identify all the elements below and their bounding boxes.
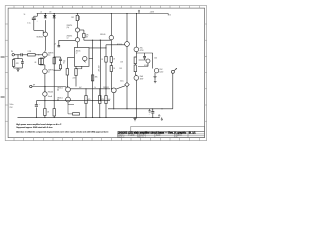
svg-text:BD140: BD140 <box>100 34 105 36</box>
svg-text:2N3055 (25) elab amplifier cir: 2N3055 (25) elab amplifier circuit base … <box>118 131 187 135</box>
label Q9 <box>103 87 109 89</box>
wire VR1 to Q9 <box>116 86 125 89</box>
label D1 above <box>40 11 42 13</box>
wire box bottom <box>76 66 82 69</box>
capacitor C2 <box>32 18 38 22</box>
transistor Q4 <box>75 28 79 32</box>
diode D1 <box>44 15 47 18</box>
node +V rail arrow <box>138 10 140 14</box>
junction dots output rail <box>113 108 162 109</box>
label net b <box>94 87 96 89</box>
label Q5 <box>67 35 73 39</box>
wire V127 down <box>126 46 128 82</box>
svg-text:Attention: in 2004 the compone: Attention: in 2004 the components improv… <box>16 130 109 133</box>
wire R9-Q7 link <box>84 40 111 41</box>
resistor R15 <box>110 57 112 72</box>
terminal input IN <box>12 54 14 56</box>
title block table <box>118 132 205 138</box>
wire input shunt drop <box>17 54 18 58</box>
capacitor C8 <box>149 109 155 118</box>
svg-text:22p: 22p <box>63 60 66 62</box>
ground rail stub <box>134 117 136 118</box>
wire Q10 emitter <box>135 52 137 57</box>
wire V136 <box>136 14 138 48</box>
label Q14 <box>48 91 54 97</box>
wire C6 <box>144 53 146 60</box>
transistor Q8 <box>125 42 130 47</box>
wire box to V92 <box>89 58 93 60</box>
transistor Q9 <box>111 88 116 93</box>
terminal NFB <box>30 85 32 87</box>
svg-text:Bl. 1/1: Bl. 1/1 <box>189 132 196 135</box>
label +V rail <box>150 12 155 14</box>
wire output horizontal <box>108 108 173 110</box>
wire D1 stub <box>44 14 46 16</box>
svg-text:1837: 1837 <box>140 78 144 80</box>
ground under rail <box>148 109 151 112</box>
label Q4 <box>67 25 73 29</box>
label R8 <box>71 17 74 19</box>
svg-text:+56V: +56V <box>150 12 155 14</box>
svg-text:Bearb. b: Bearb. b <box>118 136 124 138</box>
svg-text:+: + <box>149 114 150 116</box>
wire V98 <box>100 40 101 101</box>
label R11 <box>73 78 76 80</box>
resistor R13 on V92 <box>91 75 93 81</box>
wire V92 long <box>92 40 93 118</box>
ground symbol bottom <box>133 119 136 121</box>
ground Q13 second <box>154 79 157 83</box>
svg-text:MJE350: MJE350 <box>37 37 43 39</box>
title block row3 <box>118 135 178 138</box>
svg-text:Supposed approx. 80W rated wit: Supposed approx. 80W rated with 8 ohm <box>16 126 53 129</box>
wire column B <box>111 40 112 90</box>
label U1 line1 <box>76 49 81 52</box>
wire Q9 down <box>113 93 115 109</box>
wire Q11 down <box>136 80 137 118</box>
svg-text:100: 100 <box>154 57 157 59</box>
wire D2 stub <box>53 14 55 16</box>
wire shunt gnd join <box>14 67 23 69</box>
svg-text:2N5401: 2N5401 <box>48 91 54 93</box>
wire Q13 emitter <box>154 73 156 76</box>
transistor Q14 <box>43 86 47 101</box>
svg-text:5200: 5200 <box>159 71 163 73</box>
wire Q12 bottom link <box>138 63 148 66</box>
wire Q5 down <box>77 42 79 48</box>
border frame outer <box>5 6 206 141</box>
resistor R9 <box>83 33 85 40</box>
label IN <box>11 51 14 53</box>
wire output vertical <box>172 73 174 109</box>
label R19 <box>47 112 50 114</box>
label R1 value <box>16 63 20 65</box>
title block row1 right <box>189 132 196 135</box>
svg-text:56: 56 <box>24 14 26 16</box>
svg-text:1N: 1N <box>49 11 51 13</box>
wire NFB <box>32 87 66 88</box>
label R2 <box>28 51 32 53</box>
wire C2 feed <box>34 13 38 18</box>
resistor R22 <box>99 89 101 118</box>
wire box top link <box>89 47 106 49</box>
resistor R23 <box>105 89 107 118</box>
wire V54 upper <box>53 25 55 87</box>
fold mark left lower <box>1 96 5 98</box>
label U1 line2 <box>76 53 78 55</box>
label Q7 <box>100 34 105 36</box>
resistor R11 <box>75 66 77 86</box>
transistor Q16 <box>66 92 71 105</box>
svg-text:1. Cande: 1. Cande <box>128 135 135 137</box>
svg-text:2K2: 2K2 <box>71 17 74 19</box>
label R15 <box>113 58 115 70</box>
transistor Q15 <box>66 87 71 92</box>
label VAS2 <box>119 68 122 70</box>
wire +V top rail <box>38 13 168 15</box>
svg-text:1K: 1K <box>113 58 115 60</box>
fold mark left upper <box>1 56 5 58</box>
wire mid horizontal <box>36 100 110 101</box>
svg-text:220: 220 <box>73 78 76 80</box>
title block row1 text <box>118 131 187 135</box>
transistor Q3 <box>43 69 48 92</box>
title block top cell <box>131 126 205 131</box>
label Q3 <box>48 69 54 74</box>
wire VR1 down <box>126 87 128 109</box>
capacitor C7 electrolytic <box>35 101 40 118</box>
resistor R16 <box>134 57 136 64</box>
terminal OUT <box>171 70 174 73</box>
svg-text:1K: 1K <box>113 68 115 70</box>
resistor R12 on V54 <box>53 109 55 118</box>
label C7b <box>10 107 14 109</box>
wire V54 lower <box>53 87 55 109</box>
label C2 value <box>27 23 30 25</box>
label Q8 <box>117 44 122 46</box>
border frame inner <box>8 8 205 138</box>
wire V127 <box>126 14 128 42</box>
resistor R19 <box>44 101 46 118</box>
svg-text:1K5: 1K5 <box>119 68 122 70</box>
label Q1 <box>37 37 43 39</box>
transistor Q2 <box>43 51 48 58</box>
wire column A <box>105 45 106 90</box>
transistor Q6 in box <box>83 56 87 62</box>
wire shunt split <box>14 58 23 60</box>
wire D2 down <box>45 13 55 25</box>
svg-text:2N5551: 2N5551 <box>57 88 63 90</box>
label Q15 <box>57 88 63 92</box>
svg-text:+: + <box>37 20 38 22</box>
ground Q13 <box>153 77 156 79</box>
wire Q4 collector right <box>80 30 84 33</box>
wire comp top <box>54 56 61 58</box>
label R5R6 <box>35 62 37 64</box>
label R13 <box>95 77 99 79</box>
emitter resistors R5 R6 <box>39 58 45 69</box>
resistor R14 <box>105 56 107 62</box>
wire input <box>14 54 20 56</box>
transistor Q5 <box>75 32 79 42</box>
svg-text:1K: 1K <box>101 59 103 61</box>
svg-text:C9: C9 <box>54 44 56 46</box>
label C7 <box>10 104 14 106</box>
label R9 <box>86 34 90 38</box>
label R23 <box>108 99 111 101</box>
resistor R21 <box>85 89 87 118</box>
wire R2-Q2 base <box>35 54 42 55</box>
note line 1 <box>16 123 62 126</box>
transistor Q7 <box>109 35 113 39</box>
svg-text:470: 470 <box>101 99 104 101</box>
svg-text:1.5u: 1.5u <box>27 23 30 25</box>
label R22 <box>101 99 104 101</box>
junction dots on +V rail <box>45 13 137 14</box>
transistor Q13 <box>154 69 158 73</box>
wire V152 <box>152 53 154 69</box>
svg-text:100: 100 <box>108 99 111 101</box>
label Q10 <box>140 48 144 52</box>
wire Q16 emitter h <box>68 104 74 106</box>
wire ground rail <box>18 116 160 118</box>
note line 2 <box>16 126 53 129</box>
transistor Q11 <box>134 76 139 81</box>
component box U1 <box>74 48 89 67</box>
transistor Q10 <box>134 47 139 52</box>
label +V right <box>169 14 172 16</box>
wire Q8 base left <box>106 44 125 46</box>
trimmer diamond VR1 <box>125 82 129 86</box>
note line 3 <box>16 130 109 133</box>
capacitor C6 bias <box>143 56 146 57</box>
label Q13 <box>159 69 163 73</box>
svg-text:2SB716: 2SB716 <box>67 25 73 27</box>
resistor R8 <box>76 15 80 20</box>
wire Q1 base <box>34 20 43 34</box>
wire V113 top <box>110 14 112 36</box>
label Q2 <box>48 51 54 56</box>
label Q16 <box>57 98 63 102</box>
svg-text:High power mono amplifier boar: High power mono amplifier board design r… <box>16 123 62 126</box>
svg-text:4793: 4793 <box>140 50 144 52</box>
wire box left stub <box>67 57 74 59</box>
ground rail end mark <box>158 115 160 118</box>
svg-text:+: + <box>39 104 40 106</box>
label R21 <box>88 99 91 101</box>
svg-text:Bezema: Bezema <box>176 135 182 137</box>
wire C1-R1 <box>23 54 28 56</box>
svg-text:470: 470 <box>88 99 91 101</box>
resistor R17 <box>134 64 136 72</box>
label comp <box>63 60 66 64</box>
capacitor C4 comp <box>59 59 62 70</box>
resistor R1 shunt <box>12 59 14 68</box>
wire R17 down <box>135 72 136 76</box>
wire V152 top <box>137 52 153 54</box>
paper background <box>0 0 213 150</box>
svg-text:2N5551: 2N5551 <box>57 98 63 100</box>
label rail start <box>24 14 26 16</box>
label net a <box>79 87 82 89</box>
label VAS1 <box>120 62 123 64</box>
transistor Q1 <box>43 20 47 51</box>
ground arrow right <box>161 117 163 120</box>
label OUT arrow <box>174 68 177 71</box>
transistor Q12 bias <box>146 59 150 63</box>
ground input <box>16 68 19 71</box>
label Q11 <box>140 75 144 80</box>
wire comp bottom <box>54 70 61 71</box>
label NFB <box>33 85 35 87</box>
svg-text:x2: x2 <box>76 53 78 55</box>
svg-text:68: 68 <box>35 62 37 64</box>
label R14 <box>101 59 103 61</box>
label R18 <box>154 57 157 59</box>
wire Q5 base net <box>54 40 75 47</box>
border zone ticks horizontal <box>14 6 199 141</box>
junction dots ground rail <box>36 117 107 118</box>
label D2 above <box>49 11 51 13</box>
wire rail end tick <box>167 14 169 16</box>
svg-text:1K: 1K <box>63 63 65 65</box>
wire bias link <box>139 59 146 61</box>
wire R8-Q4 <box>76 21 78 28</box>
border zone ticks vertical <box>5 24 206 121</box>
resistor R7 comp <box>53 58 55 64</box>
capacitor C1 input <box>21 53 22 56</box>
label vertical net <box>98 65 100 71</box>
diode D2 <box>53 15 56 18</box>
wire V68 top <box>76 14 78 16</box>
svg-text:100u: 100u <box>10 104 14 106</box>
svg-text:x4: x4 <box>40 11 42 13</box>
svg-text:2SB716: 2SB716 <box>67 35 73 37</box>
resistor R10 <box>66 58 68 87</box>
capacitor C3 shunt <box>21 59 24 68</box>
title block row2 <box>118 134 182 137</box>
label VR1 <box>120 80 124 83</box>
resistor R20 h <box>68 105 80 116</box>
svg-text:10K: 10K <box>120 62 123 64</box>
label Q12 value <box>144 65 148 67</box>
resistor R2 series <box>28 54 36 56</box>
wire Q15 collector right <box>70 88 110 89</box>
